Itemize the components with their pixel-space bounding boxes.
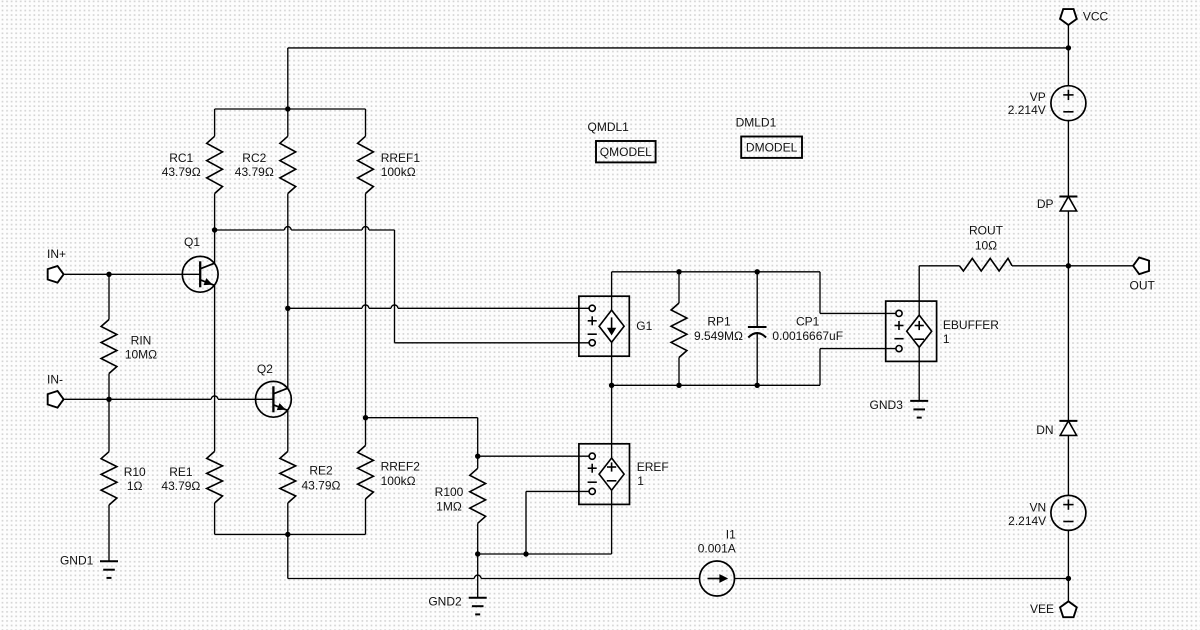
svg-text:43.79Ω: 43.79Ω — [302, 479, 341, 493]
node RREF junction — [363, 415, 368, 420]
wire VCC lead — [1067, 25, 1069, 86]
pin EREF plus terminal — [588, 453, 597, 473]
diode DP — [1059, 197, 1077, 212]
wire jog top — [820, 272, 896, 314]
label DMLD1 — [736, 115, 777, 129]
port OUT — [1133, 257, 1149, 274]
wire EREF minus row — [526, 490, 589, 492]
ground GND1 — [100, 561, 118, 578]
node OUT junction — [1066, 263, 1071, 268]
node Q1 collector junction — [212, 227, 217, 232]
wire Q2 collector lead — [287, 308, 289, 388]
svg-text:1: 1 — [637, 474, 644, 488]
label VCC — [1083, 10, 1109, 24]
label R10 — [124, 465, 146, 479]
wire G1 bottom lead — [611, 342, 613, 385]
value VP — [1008, 103, 1046, 117]
svg-text:100kΩ: 100kΩ — [381, 165, 416, 179]
value RREF2 — [381, 474, 416, 488]
svg-text:QMODEL: QMODEL — [600, 145, 652, 159]
wire EBUFFER to ROUT — [919, 265, 959, 267]
svg-text:1MΩ: 1MΩ — [436, 500, 462, 514]
wire VEE bus left (hops GND2) — [288, 575, 700, 578]
wire R10 to GND1 — [108, 505, 110, 561]
svg-text:VP: VP — [1030, 90, 1046, 104]
wire RIN top lead — [108, 274, 110, 319]
voltage source VN — [1051, 495, 1086, 530]
label Q2 — [257, 362, 273, 376]
node EREF plus junction — [475, 454, 480, 459]
wire DN to VN — [1067, 435, 1069, 495]
svg-text:43.79Ω: 43.79Ω — [235, 165, 274, 179]
label DP — [1037, 197, 1054, 211]
wire R100 top lead — [477, 418, 479, 469]
wire G1 top lead — [611, 272, 613, 310]
wire Q1 collector lead — [214, 230, 216, 263]
label GND2 — [428, 594, 462, 608]
svg-text:9.549MΩ: 9.549MΩ — [694, 329, 743, 343]
wire EREF bottom lead — [611, 490, 613, 554]
svg-text:RE2: RE2 — [309, 464, 333, 478]
value R10 — [127, 479, 143, 493]
op source EBUFFER box — [886, 301, 937, 361]
resistor RREF1 — [358, 136, 374, 193]
pin G1 minus terminal — [588, 334, 597, 346]
label RREF2 — [381, 460, 421, 474]
port IN+ — [48, 266, 64, 283]
svg-text:OUT: OUT — [1130, 278, 1156, 292]
svg-text:ROUT: ROUT — [969, 223, 1004, 237]
value I1 — [698, 542, 736, 556]
wire RC2 bottom lead — [287, 194, 289, 309]
voltage source VP — [1051, 86, 1086, 121]
svg-text:43.79Ω: 43.79Ω — [162, 165, 201, 179]
label OUT — [1130, 278, 1156, 292]
node Q2 collector junction — [285, 306, 290, 311]
wire to EREF plus — [478, 455, 589, 457]
node emitter bus junction — [285, 532, 290, 537]
wire EREF top lead — [611, 385, 613, 458]
wire G1 top rail — [612, 271, 820, 273]
wire RE2 column to VEE bus — [287, 534, 289, 578]
voltage source EREF diamond — [599, 458, 624, 490]
current source G1 diamond — [599, 310, 624, 342]
wire Q2 emitter lead — [287, 410, 289, 451]
port IN- — [48, 391, 64, 408]
model box QMODEL — [596, 141, 656, 162]
svg-text:R10: R10 — [124, 465, 146, 479]
value RP1 — [694, 329, 743, 343]
label EREF — [637, 460, 669, 474]
svg-text:DN: DN — [1036, 423, 1053, 437]
label I1 — [726, 528, 736, 542]
svg-text:RIN: RIN — [131, 334, 152, 348]
wire RREF1 top lead — [365, 109, 367, 136]
port VEE — [1060, 601, 1077, 617]
svg-text:GND3: GND3 — [870, 398, 904, 412]
svg-text:1: 1 — [943, 332, 950, 346]
label RE1 — [169, 465, 193, 479]
label GND3 — [870, 398, 904, 412]
svg-text:R100: R100 — [435, 485, 464, 499]
node CP1 top — [755, 269, 760, 274]
label RIN — [131, 334, 152, 348]
svg-text:VN: VN — [1030, 501, 1047, 515]
node R100 bottom junction — [475, 551, 480, 556]
wire VN to VEE bus — [1067, 530, 1069, 578]
wire EREF minus drop — [525, 491, 527, 554]
svg-text:RE1: RE1 — [169, 465, 193, 479]
value R100 — [436, 500, 462, 514]
label RREF1 — [381, 151, 421, 165]
op source G1 box — [579, 296, 629, 356]
label QMDL1 — [588, 120, 630, 134]
svg-text:RC2: RC2 — [242, 151, 266, 165]
resistor RE2 — [280, 451, 296, 503]
wire RREF2 top lead — [365, 418, 367, 446]
wire VP to DP — [1067, 121, 1069, 197]
svg-text:10Ω: 10Ω — [975, 238, 997, 252]
wire G1 plus row (hops RREF1, drop wire) — [288, 305, 589, 308]
svg-text:DP: DP — [1037, 197, 1054, 211]
value CP1 — [772, 329, 843, 343]
label CP1 — [796, 315, 820, 329]
pin G1 plus terminal — [588, 305, 597, 325]
wire RE2 bottom lead — [287, 503, 289, 534]
current source I1 — [700, 561, 735, 596]
wire VEE lead — [1067, 579, 1069, 602]
svg-text:G1: G1 — [636, 319, 652, 333]
svg-text:RREF1: RREF1 — [381, 151, 421, 165]
label GND1 — [60, 554, 94, 568]
label RC1 — [169, 151, 193, 165]
node IN+ junction — [106, 272, 111, 277]
wire ROUT to OUT node — [1012, 265, 1068, 267]
wire VEE bus right — [735, 578, 1069, 580]
diode DN — [1059, 421, 1077, 436]
wire RP1 top lead — [678, 272, 680, 303]
wire top bus VCC — [288, 47, 1069, 49]
svg-text:10MΩ: 10MΩ — [125, 348, 157, 362]
wire EREF bottom row — [478, 553, 612, 555]
op source EREF box — [579, 444, 630, 505]
svg-text:2.214V: 2.214V — [1008, 103, 1046, 117]
resistor RIN — [101, 320, 117, 374]
resistor R10 — [101, 452, 117, 505]
svg-text:DMODEL: DMODEL — [746, 141, 798, 155]
pin EBUFFER minus terminal — [894, 339, 903, 352]
svg-text:EREF: EREF — [637, 460, 669, 474]
svg-text:DMLD1: DMLD1 — [736, 115, 777, 129]
wire Q1 collector row (hops RC2, RREF1) — [215, 227, 395, 230]
wire RIN bottom lead — [108, 374, 110, 400]
wire R100 bottom lead — [477, 523, 479, 554]
value RE1 — [161, 479, 200, 493]
text DMODEL — [746, 141, 798, 155]
wire R10 top lead — [108, 399, 110, 451]
wire OUT node to port — [1068, 265, 1133, 267]
wire EBUFFER output lead — [918, 266, 920, 315]
svg-text:VEE: VEE — [1030, 602, 1054, 616]
node RP1 top — [676, 269, 681, 274]
wire emitter bus — [215, 533, 366, 535]
value ROUT — [975, 238, 997, 252]
value RREF1 — [381, 165, 416, 179]
label ROUT — [969, 223, 1004, 237]
wire DP to OUT node — [1067, 211, 1069, 266]
svg-text:RREF2: RREF2 — [381, 460, 421, 474]
svg-text:100kΩ: 100kΩ — [381, 474, 416, 488]
svg-text:GND1: GND1 — [60, 554, 94, 568]
wire G1 minus row — [395, 342, 590, 344]
label RE2 — [309, 464, 333, 478]
svg-text:QMDL1: QMDL1 — [588, 120, 630, 134]
wire CP1 bottom lead — [756, 333, 758, 386]
svg-text:Q1: Q1 — [184, 235, 200, 249]
wire drop to G1 minus row — [394, 230, 396, 343]
resistor ROUT — [959, 258, 1012, 271]
label IN+ — [47, 247, 66, 261]
value EBUFFER — [943, 332, 950, 346]
svg-text:GND2: GND2 — [428, 594, 462, 608]
transistor Q1 — [182, 256, 218, 292]
svg-text:Q2: Q2 — [257, 362, 273, 376]
resistor RREF2 — [358, 446, 374, 500]
ground GND2 — [469, 598, 487, 615]
wire RC2 top lead — [287, 109, 289, 136]
svg-text:CP1: CP1 — [796, 315, 820, 329]
svg-text:I1: I1 — [726, 528, 736, 542]
wire Q1 emitter lead — [214, 285, 216, 451]
svg-text:IN+: IN+ — [47, 247, 66, 261]
label RP1 — [707, 315, 731, 329]
label VEE — [1030, 602, 1054, 616]
wire IN- to Q2 base (hops RE1 column) — [65, 396, 256, 399]
resistor RC2 — [280, 136, 296, 193]
pin EREF minus terminal — [588, 482, 597, 494]
wire CP1 top lead — [756, 272, 758, 327]
voltage source EBUFFER diamond — [907, 315, 932, 347]
svg-text:2.214V: 2.214V — [1008, 514, 1046, 528]
wire RP1 bottom lead — [678, 358, 680, 386]
wire OUT node to DN — [1067, 266, 1069, 421]
node VCC bus junction — [1066, 45, 1071, 50]
value RC1 — [162, 165, 201, 179]
value RE2 — [302, 479, 341, 493]
node IN- junction — [106, 397, 111, 402]
svg-text:0.0016667uF: 0.0016667uF — [772, 329, 843, 343]
resistor RC1 — [207, 136, 223, 193]
port VCC — [1060, 9, 1077, 25]
value RIN — [125, 348, 157, 362]
wire RREF junction to R100 — [366, 417, 478, 419]
wire RC top rail — [215, 108, 366, 110]
node EREF minus junction — [523, 551, 528, 556]
resistor R100 — [470, 468, 486, 523]
svg-text:IN-: IN- — [47, 372, 63, 386]
label VP — [1030, 90, 1046, 104]
svg-text:43.79Ω: 43.79Ω — [161, 479, 200, 493]
wire RC1 top lead — [214, 109, 216, 136]
label IN- — [47, 372, 63, 386]
wire RREF1 bottom lead — [365, 194, 367, 418]
label Q1 — [184, 235, 200, 249]
label G1 — [636, 319, 652, 333]
pin EBUFFER plus terminal — [895, 310, 904, 330]
wire RC1 bottom lead — [214, 194, 216, 231]
label DN — [1036, 423, 1053, 437]
node rail junction — [285, 106, 290, 111]
svg-text:0.001A: 0.001A — [698, 542, 736, 556]
ground GND3 — [910, 401, 928, 418]
label VN — [1030, 501, 1047, 515]
wire GND2 drop (through bus) — [477, 554, 479, 598]
svg-text:VCC: VCC — [1083, 10, 1109, 24]
wire jog bottom — [820, 349, 896, 386]
svg-text:EBUFFER: EBUFFER — [943, 318, 999, 332]
value RC2 — [235, 165, 274, 179]
value EREF — [637, 474, 644, 488]
wire EBUFFER bottom lead — [918, 347, 920, 401]
svg-text:RC1: RC1 — [169, 151, 193, 165]
wire RREF2 bottom lead — [365, 499, 367, 534]
transistor Q2 — [256, 381, 292, 417]
value VN — [1008, 514, 1046, 528]
label RC2 — [242, 151, 266, 165]
label R100 — [435, 485, 464, 499]
node RP1 bottom — [676, 383, 681, 388]
resistor RE1 — [207, 451, 223, 503]
resistor RP1 — [671, 303, 687, 358]
wire IN+ to Q1 base — [65, 273, 183, 275]
wire top bus drop — [287, 48, 289, 109]
wire RE1 bottom lead — [214, 503, 216, 534]
svg-text:RP1: RP1 — [707, 315, 731, 329]
svg-text:1Ω: 1Ω — [127, 479, 143, 493]
label EBUFFER — [943, 318, 999, 332]
text QMODEL — [600, 145, 652, 159]
node CP1 bottom — [755, 383, 760, 388]
model box DMODEL — [741, 137, 802, 158]
wire G1 bottom rail — [612, 384, 820, 386]
node VEE bus junction — [1066, 576, 1071, 581]
capacitor CP1 — [748, 327, 767, 338]
node G1 bottom junction — [609, 383, 614, 388]
